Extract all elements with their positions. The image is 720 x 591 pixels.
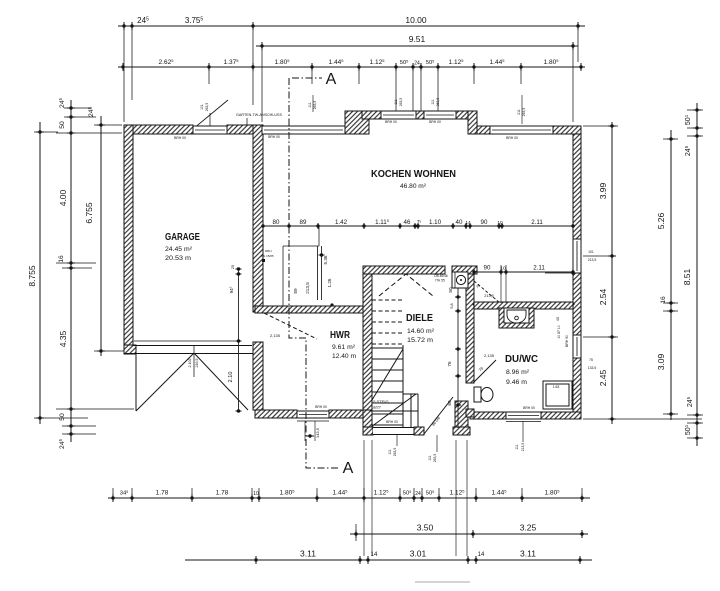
entrance band pier: [414, 427, 424, 435]
svg-text:111: 111: [431, 99, 435, 104]
wall B (DIELE/DUWC): [466, 274, 474, 383]
svg-text:BRH 00: BRH 00: [506, 136, 518, 140]
interior wall A (HWR top): [255, 306, 372, 313]
svg-text:50: 50: [59, 121, 66, 129]
svg-text:40: 40: [556, 317, 560, 321]
svg-text:15.72 m: 15.72 m: [407, 337, 434, 344]
left chain A (8.755): [39, 122, 41, 424]
svg-text:DRH: DRH: [265, 249, 272, 253]
svg-text:DIELE: DIELE: [406, 312, 433, 324]
svg-text:89: 89: [300, 219, 307, 226]
bottom chain b2 (3.50/3.25): [350, 533, 588, 535]
svg-text:DU/WC: DU/WC: [505, 353, 538, 365]
entrance right column: [455, 401, 468, 427]
svg-text:50: 50: [59, 413, 66, 421]
long extension lines to b3: [363, 440, 365, 556]
entrance door swing: [424, 397, 453, 434]
svg-text:GARTEN-TW-ANSCHLUSS: GARTEN-TW-ANSCHLUSS: [236, 113, 283, 117]
DU/WC bottom wall right part: [541, 412, 581, 419]
svg-text:24: 24: [415, 491, 421, 497]
svg-text:3.50: 3.50: [417, 523, 434, 533]
kitchen door swing dashed: [474, 281, 500, 303]
interior dim line y226: [263, 225, 573, 227]
garage top window: [193, 126, 227, 134]
step block top: [345, 111, 369, 134]
svg-text:15 STEIG.: 15 STEIG.: [371, 399, 390, 404]
svg-text:8.755: 8.755: [27, 265, 37, 287]
stair up arrow diagonals: [372, 349, 403, 400]
interior dim line y272 (kitchen): [474, 271, 573, 273]
svg-text:75: 75: [589, 358, 593, 362]
left chain B: [70, 100, 72, 442]
svg-text:BRH 90: BRH 90: [565, 335, 569, 347]
svg-text:101: 101: [588, 250, 594, 254]
svg-text:76: 76: [447, 361, 452, 367]
svg-text:2.45: 2.45: [598, 369, 608, 386]
svg-text:14: 14: [478, 552, 485, 558]
svg-text:3.99: 3.99: [598, 182, 608, 199]
entrance band right part: [453, 427, 470, 435]
svg-text:12.40 m: 12.40 m: [332, 353, 357, 360]
svg-text:90: 90: [481, 219, 488, 226]
svg-text:1.78: 1.78: [156, 490, 169, 497]
svg-text:BRH 00: BRH 00: [174, 136, 186, 140]
svg-text:8.96 m²: 8.96 m²: [506, 369, 530, 376]
svg-text:3.11: 3.11: [520, 549, 536, 559]
svg-text:211: 211: [517, 109, 521, 115]
shared wall lower (below HWR door): [253, 342, 263, 410]
stair landing: [370, 410, 418, 412]
svg-text:BRH 00: BRH 00: [523, 406, 535, 410]
washbasin extension: [545, 272, 573, 274]
svg-text:1.26: 1.26: [327, 278, 332, 287]
svg-text:3.11: 3.11: [300, 549, 316, 559]
right wall window DU/WC: [573, 335, 581, 358]
svg-text:10: 10: [253, 491, 259, 497]
svg-text:5,8: 5,8: [450, 303, 454, 308]
garage top wall left part: [124, 125, 193, 134]
HWR window bottom label: [304, 421, 306, 441]
svg-text:2,135: 2,135: [270, 333, 281, 338]
garage top wall right part: [227, 125, 253, 134]
top middle wall segment 1: [362, 111, 381, 119]
DU/WC door swing: [473, 360, 496, 383]
interior wall C (DIELE top) left: [363, 266, 445, 274]
faint partial line bottom: [415, 581, 470, 583]
svg-text:HWR: HWR: [330, 329, 350, 341]
svg-text:89: 89: [293, 288, 298, 294]
left chain C (6.755): [100, 116, 102, 356]
svg-text:10 87 10: 10 87 10: [557, 325, 561, 338]
svg-text:46: 46: [404, 219, 411, 226]
svg-text:80: 80: [273, 219, 280, 226]
DU/WC bottom window: [506, 412, 541, 419]
DU/WC window bottom label: [522, 421, 524, 442]
svg-text:101: 101: [200, 104, 204, 110]
svg-text:263,5: 263,5: [436, 98, 440, 107]
left extension lines: [64, 107, 92, 109]
right extension lines: [583, 125, 618, 127]
HWR bottom window: [297, 411, 329, 418]
right chain R1 (3.99/2.54/2.45): [611, 122, 613, 424]
svg-text:20.53 m: 20.53 m: [165, 255, 192, 262]
svg-text:111: 111: [388, 449, 392, 454]
top middle wall pier: [416, 111, 424, 119]
svg-text:4.00: 4.00: [58, 189, 68, 206]
svg-text:2.10: 2.10: [228, 372, 234, 383]
HWR bottom wall right part: [329, 410, 372, 418]
svg-text:A: A: [343, 460, 354, 477]
svg-text:BRH 00: BRH 00: [315, 405, 327, 409]
svg-text:14.60 m²: 14.60 m²: [407, 328, 435, 335]
svg-text:DN 15/05: DN 15/05: [261, 254, 274, 258]
svg-text:18/27: 18/27: [371, 405, 382, 410]
svg-text:2.11: 2.11: [533, 265, 545, 272]
top-left window: [262, 126, 345, 134]
right chain R3 (50/24.5/8.51/24.5/50): [696, 103, 698, 446]
svg-text:3.25: 3.25: [520, 523, 537, 533]
svg-text:2.11: 2.11: [531, 219, 543, 226]
svg-text:263,5: 263,5: [313, 101, 317, 110]
toilet: [474, 387, 481, 402]
svg-text:2.102: 2.102: [188, 359, 192, 368]
washbasin: [499, 308, 534, 328]
svg-text:24: 24: [414, 61, 420, 67]
svg-text:111: 111: [428, 455, 432, 460]
bottom chain b1: [108, 497, 590, 499]
svg-text:2.54: 2.54: [598, 288, 608, 305]
svg-text:A: A: [326, 71, 337, 88]
HWR bottom wall left part: [255, 410, 297, 418]
svg-text:25: 25: [231, 265, 235, 269]
svg-text:16: 16: [660, 296, 667, 304]
svg-text:10.00: 10.00: [405, 15, 427, 25]
svg-text:143,5: 143,5: [315, 427, 320, 438]
right wall lower: [573, 358, 581, 419]
svg-text:BRH 00: BRH 00: [386, 420, 398, 424]
garage left wall: [124, 125, 133, 354]
svg-text:3.09: 3.09: [656, 353, 666, 370]
notch window 1: [381, 111, 416, 119]
svg-text:213,5: 213,5: [521, 443, 525, 452]
garage door swing triangle: [135, 354, 137, 411]
right chain R2 (5.26/16/3.09): [670, 130, 672, 420]
svg-text:5.26: 5.26: [656, 212, 666, 229]
svg-text:263,5: 263,5: [399, 98, 403, 107]
svg-text:213,5: 213,5: [588, 258, 597, 262]
staircase dashed treads: [372, 300, 403, 344]
garage bottom wall left stub: [124, 345, 136, 354]
top dimension chain 3 (wall segments): [118, 66, 585, 68]
svg-text:14: 14: [465, 220, 471, 226]
garage right side chain: [238, 269, 240, 411]
kitchen stove: [452, 272, 468, 288]
svg-text:213,5: 213,5: [305, 282, 310, 294]
svg-text:BRH 00: BRH 00: [429, 120, 441, 124]
svg-text:9.46 m: 9.46 m: [506, 379, 528, 386]
interior wall C right stub: [452, 266, 477, 274]
shower: [543, 381, 572, 409]
svg-text:4.35: 4.35: [58, 330, 68, 347]
right wall window kitchen: [573, 239, 581, 273]
svg-text:5.36: 5.36: [323, 255, 328, 264]
step down block top right: [468, 111, 477, 134]
extension stubs above b1: [112, 488, 114, 494]
extension stubs below chain 3: [208, 71, 210, 84]
svg-text:111: 111: [394, 99, 398, 104]
svg-text:9.51: 9.51: [409, 34, 426, 44]
svg-text:10: 10: [497, 220, 503, 226]
entrance bottom band: [363, 427, 373, 435]
svg-text:2,135: 2,135: [484, 353, 495, 358]
garage door (bottom): [133, 345, 252, 347]
svg-text:263,5: 263,5: [522, 108, 526, 117]
svg-text:BRH 00: BRH 00: [268, 135, 280, 139]
top dimension chain 2 (9.51): [256, 45, 578, 47]
top dimension chain 1 (24.5 / 3.755 / 10.00): [118, 25, 585, 27]
top-right window: [490, 126, 553, 134]
right wall middle: [573, 273, 581, 335]
top middle wall segment 2: [456, 111, 477, 119]
notch window 2: [424, 111, 456, 119]
svg-text:6.755: 6.755: [84, 202, 94, 224]
DU/WC bottom wall left part: [470, 412, 506, 419]
svg-text:213,5: 213,5: [484, 294, 494, 298]
svg-text:8.51: 8.51: [682, 268, 692, 285]
svg-text:1.63: 1.63: [553, 385, 560, 389]
top right corner wall: [553, 126, 581, 134]
svg-text:3.01: 3.01: [410, 549, 427, 559]
staircase solid treads: [372, 348, 403, 425]
svg-text:263,5: 263,5: [393, 448, 397, 457]
svg-text:111: 111: [515, 444, 519, 449]
shared wall garage/house upper: [253, 125, 263, 312]
svg-text:216,5: 216,5: [195, 359, 199, 368]
garage door centre labels: [193, 345, 195, 377]
svg-text:263,5: 263,5: [433, 454, 437, 463]
interior wall D (DU/WC top): [474, 302, 573, 309]
svg-text:40: 40: [456, 219, 463, 226]
HWR door swing (dashed): [264, 313, 317, 339]
svg-text:DB 46/46: DB 46/46: [434, 274, 448, 278]
svg-text:KOCHEN WOHNEN: KOCHEN WOHNEN: [371, 168, 456, 180]
svg-text:263,5: 263,5: [205, 103, 209, 112]
svg-text:24.45 m²: 24.45 m²: [165, 246, 193, 253]
bottom chain b3 (3.11/14/3.01/14/3.11): [185, 559, 592, 561]
extension lines top chain 1: [123, 30, 125, 122]
top right wall segment: [477, 126, 490, 134]
leader line garage top window: [193, 100, 228, 129]
svg-text:BRH 00: BRH 00: [385, 120, 397, 124]
svg-text:9.61 m²: 9.61 m²: [332, 344, 356, 351]
DIELE right chain: [457, 277, 459, 428]
small chain left of kitchen (5.36/1.26): [318, 226, 320, 246]
stair dashed chevron (ceiling opening): [379, 274, 433, 296]
svg-text:1.78: 1.78: [216, 490, 229, 497]
svg-text:ITH 55: ITH 55: [435, 279, 445, 283]
svg-text:16: 16: [58, 255, 65, 263]
svg-text:1.42: 1.42: [335, 219, 348, 226]
wall B lower stub: [466, 409, 474, 417]
svg-text:111: 111: [308, 102, 312, 107]
entrance left column: [363, 410, 372, 435]
right wall upper: [573, 134, 581, 239]
svg-text:133,5: 133,5: [588, 366, 597, 370]
svg-text:90: 90: [484, 265, 491, 272]
svg-text:1.10: 1.10: [429, 219, 442, 226]
entrance threshold: [373, 427, 414, 435]
svg-text:GARAGE: GARAGE: [165, 231, 200, 243]
DIELE left wall: [363, 274, 372, 410]
section line A-A: [289, 78, 338, 468]
svg-text:46.80 m²: 46.80 m²: [400, 183, 427, 190]
